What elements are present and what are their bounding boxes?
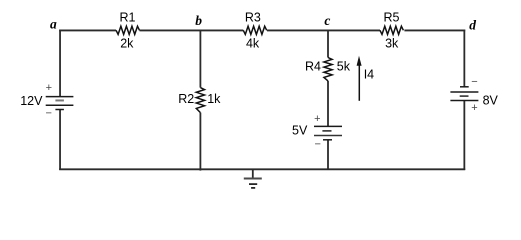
svg-text:1k: 1k bbox=[207, 92, 221, 106]
battery 8V plate short terminal top bbox=[460, 86, 469, 88]
svg-text:3k: 3k bbox=[385, 37, 399, 51]
svg-text:R5: R5 bbox=[384, 10, 400, 24]
svg-text:4k: 4k bbox=[246, 37, 260, 51]
current arrow I4 head bbox=[357, 56, 362, 66]
svg-text:−: − bbox=[45, 108, 51, 120]
battery 8V plate short middle bbox=[460, 95, 469, 97]
ground bar 2 bbox=[249, 183, 257, 185]
battery 8V plate long lower bbox=[450, 100, 478, 102]
wire 5V battery to bottom rail bbox=[327, 140, 329, 170]
wire top rail R1 to node b to R3 bbox=[140, 29, 244, 31]
svg-text:8V: 8V bbox=[483, 94, 499, 108]
svg-text:+: + bbox=[46, 82, 52, 94]
battery 5V plate short middle bbox=[322, 130, 331, 132]
svg-text:12V: 12V bbox=[20, 94, 43, 108]
resistor R2 body bbox=[196, 88, 204, 113]
svg-text:+: + bbox=[314, 113, 320, 125]
svg-text:R1: R1 bbox=[120, 10, 136, 24]
wire R2 down to bottom rail bbox=[199, 113, 201, 171]
resistor R5 body bbox=[380, 26, 403, 34]
wire node b down to R2 bbox=[199, 30, 201, 87]
battery 12V plate short gray bbox=[55, 99, 64, 101]
wire bottom rail bbox=[59, 168, 465, 170]
svg-text:R2: R2 bbox=[178, 92, 194, 106]
svg-text:−: − bbox=[471, 76, 477, 88]
resistor R4 body bbox=[324, 58, 332, 81]
resistor R3 body bbox=[243, 26, 266, 34]
svg-text:R4: R4 bbox=[305, 60, 321, 74]
ground stem bbox=[252, 169, 254, 178]
wire top rail a to R1 bbox=[59, 29, 116, 31]
wire top rail R3 to node c to R5 bbox=[267, 29, 380, 31]
wire node c down to R4 bbox=[327, 30, 329, 57]
battery 8V plate long upper bbox=[450, 91, 478, 93]
battery 12V plate long top bbox=[46, 96, 74, 98]
svg-text:c: c bbox=[324, 13, 330, 28]
svg-text:R3: R3 bbox=[245, 10, 261, 24]
wire 12V battery to bottom-left corner bbox=[59, 110, 61, 171]
wire top rail R5 to node d bbox=[404, 29, 465, 31]
svg-text:2k: 2k bbox=[120, 37, 134, 51]
battery 5V plate long top bbox=[314, 125, 342, 127]
ground bar 1 bbox=[244, 178, 262, 180]
battery 12V plate short terminal bbox=[55, 109, 64, 111]
svg-text:5V: 5V bbox=[292, 123, 308, 137]
ground bar 3 bbox=[251, 187, 255, 189]
battery 5V plate long bottom bbox=[314, 135, 342, 137]
svg-text:a: a bbox=[50, 17, 57, 32]
wire R4 down to 5V battery bbox=[327, 81, 329, 127]
resistor R1 body bbox=[116, 26, 139, 34]
svg-text:I4: I4 bbox=[364, 67, 374, 81]
svg-text:−: − bbox=[314, 139, 320, 151]
svg-text:d: d bbox=[469, 18, 476, 33]
svg-text:+: + bbox=[471, 102, 477, 114]
wire right from node d down to 8V battery bbox=[463, 30, 465, 87]
battery 5V plate short terminal bbox=[323, 139, 332, 141]
svg-text:b: b bbox=[195, 13, 202, 28]
current arrow I4 line bbox=[358, 64, 360, 101]
wire 8V battery to bottom-right corner bbox=[463, 101, 465, 171]
wire left from node a down to 12V battery bbox=[59, 30, 61, 97]
svg-text:5k: 5k bbox=[337, 60, 351, 74]
battery 12V plate long bottom bbox=[46, 104, 74, 106]
